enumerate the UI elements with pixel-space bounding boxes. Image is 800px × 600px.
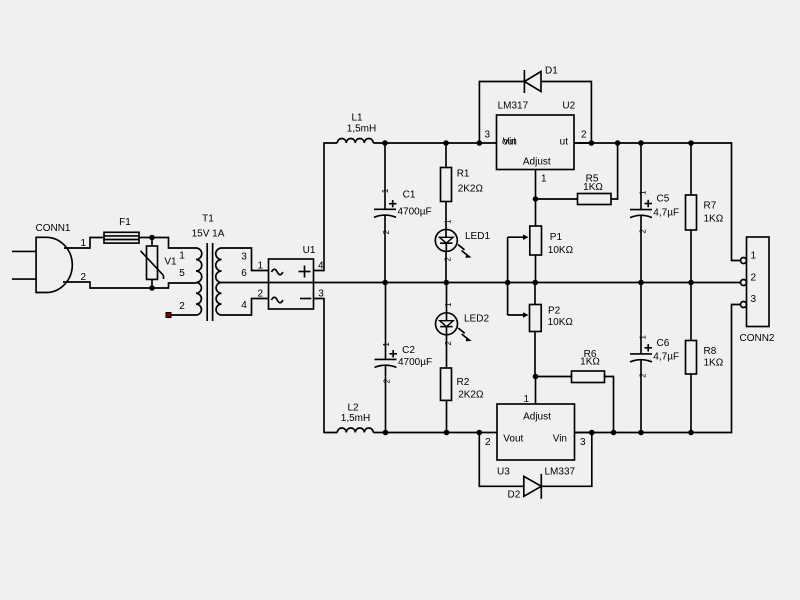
wire mid rail from T1 pin 6 to CONN2 pin 2 xyxy=(222,282,741,284)
wire bottom rail right xyxy=(575,305,741,433)
svg-text:2: 2 xyxy=(383,378,392,383)
svg-text:2: 2 xyxy=(638,373,647,378)
svg-text:2: 2 xyxy=(257,289,263,300)
svg-text:R8: R8 xyxy=(704,346,717,357)
resistor R7 xyxy=(686,143,724,283)
svg-text:P1: P1 xyxy=(550,232,563,243)
node top rail junction at R5 xyxy=(615,140,621,146)
svg-text:1: 1 xyxy=(80,238,86,249)
svg-text:3: 3 xyxy=(484,130,490,141)
svg-text:C2: C2 xyxy=(402,345,415,356)
svg-text:3: 3 xyxy=(241,252,247,263)
wire U2 pin 1 adjust xyxy=(536,170,548,200)
wire T1 pin 4 to U1 pin 2 xyxy=(222,289,269,315)
node junction V1 bottom xyxy=(149,285,155,291)
LED LED2 xyxy=(436,283,490,369)
svg-text:2: 2 xyxy=(179,301,185,312)
wire R5 to top rail xyxy=(611,143,618,199)
wire CONN1 pin 1 to F1 xyxy=(64,238,104,250)
svg-text:T1: T1 xyxy=(202,214,214,225)
node bottom rail junction at C2 xyxy=(383,430,389,436)
svg-text:CONN2: CONN2 xyxy=(739,333,774,344)
wire T1 pin 2 stub xyxy=(171,314,196,316)
svg-text:V1: V1 xyxy=(164,257,177,268)
svg-text:1: 1 xyxy=(523,394,529,405)
svg-text:2K2Ω: 2K2Ω xyxy=(458,184,484,195)
node mid rail junction at P1 xyxy=(532,280,538,286)
svg-text:2K2Ω: 2K2Ω xyxy=(458,390,484,401)
svg-text:2: 2 xyxy=(485,437,491,448)
wire top rail right xyxy=(574,143,741,261)
svg-text:10KΩ: 10KΩ xyxy=(548,317,574,328)
svg-text:R2: R2 xyxy=(457,377,470,388)
wire U3 pin 3 to bottom rail xyxy=(575,432,592,434)
svg-text:out: out xyxy=(502,137,516,148)
svg-text:LM317: LM317 xyxy=(498,101,529,112)
svg-text:6: 6 xyxy=(241,268,247,279)
svg-text:4: 4 xyxy=(318,260,324,271)
svg-text:R7: R7 xyxy=(704,201,717,212)
node top rail junction at D1 right xyxy=(589,140,595,146)
svg-text:10KΩ: 10KΩ xyxy=(548,245,574,256)
wire top rail left xyxy=(373,142,496,144)
potentiometer P2 xyxy=(508,283,574,377)
regulator U2 LM317 xyxy=(484,101,587,170)
svg-text:15V 1A: 15V 1A xyxy=(192,229,225,240)
svg-text:1KΩ: 1KΩ xyxy=(704,214,724,225)
wire T1 pin 3 to U1 pin 1 xyxy=(222,248,269,271)
node bottom rail junction at R2 xyxy=(444,430,450,436)
svg-text:F1: F1 xyxy=(119,217,131,228)
svg-text:Vout: Vout xyxy=(503,434,523,445)
node top rail junction at C5 xyxy=(638,140,644,146)
svg-text:1KΩ: 1KΩ xyxy=(580,357,600,368)
svg-text:2: 2 xyxy=(444,341,453,346)
svg-text:3: 3 xyxy=(580,437,586,448)
svg-text:C6: C6 xyxy=(657,338,670,349)
svg-text:1KΩ: 1KΩ xyxy=(583,182,603,193)
resistor R6 xyxy=(536,349,605,383)
svg-text:LED2: LED2 xyxy=(464,313,489,324)
connector CONN1 xyxy=(35,223,72,293)
diode D1 xyxy=(524,66,558,94)
svg-text:R1: R1 xyxy=(457,168,470,179)
node adjust U3 junction xyxy=(533,374,539,380)
capacitor C6 xyxy=(630,283,679,433)
inductor L2 xyxy=(337,402,373,432)
svg-text:3: 3 xyxy=(751,294,757,305)
resistor R2 xyxy=(441,368,484,433)
svg-text:Adjust: Adjust xyxy=(523,157,551,168)
capacitor C1 xyxy=(374,143,432,283)
no-connect marker T1 pin 2 xyxy=(166,313,171,318)
svg-text:2: 2 xyxy=(638,229,647,234)
wire D2 anode loop xyxy=(479,433,524,487)
svg-text:P2: P2 xyxy=(548,306,561,317)
svg-text:1: 1 xyxy=(444,219,453,224)
svg-text:C5: C5 xyxy=(657,194,670,205)
svg-text:4700µF: 4700µF xyxy=(398,207,432,218)
wire U3 pin 1 adjust xyxy=(523,377,535,406)
node top rail junction at R1 xyxy=(443,140,449,146)
wire R6 to bottom rail xyxy=(605,377,614,433)
svg-text:LED1: LED1 xyxy=(465,231,490,242)
capacitor C5 xyxy=(630,143,679,283)
svg-text:U1: U1 xyxy=(303,245,316,256)
svg-text:4700µF: 4700µF xyxy=(398,357,432,368)
node top rail junction at R7 xyxy=(688,140,694,146)
varistor V1 xyxy=(141,238,178,289)
node mid rail junction at LED1 xyxy=(444,280,450,286)
svg-text:2: 2 xyxy=(382,230,391,235)
node mid rail junction at C5 xyxy=(638,280,644,286)
wire bottom rail left xyxy=(373,432,497,434)
svg-text:U3: U3 xyxy=(497,467,510,478)
LED LED1 xyxy=(435,202,490,283)
wire D2 cathode loop xyxy=(541,433,592,487)
wire D1 cathode to U2 pin 3 node xyxy=(479,82,524,144)
svg-text:1,5mH: 1,5mH xyxy=(341,413,370,424)
node adjust U2 junction xyxy=(533,196,539,202)
wire U1 pin 4 to L1 xyxy=(314,143,338,271)
bridge rectifier U1 xyxy=(269,245,316,309)
svg-text:L2: L2 xyxy=(347,402,359,413)
fuse F1 xyxy=(104,217,139,243)
potentiometer P1 xyxy=(508,199,574,283)
node junction V1 top xyxy=(149,235,155,241)
svg-text:D2: D2 xyxy=(508,489,521,500)
svg-text:C1: C1 xyxy=(403,190,416,201)
svg-text:L1: L1 xyxy=(351,113,363,124)
svg-text:2: 2 xyxy=(80,272,86,283)
node mid rail junction at C1 xyxy=(382,280,388,286)
resistor R8 xyxy=(686,283,724,433)
svg-text:ut: ut xyxy=(560,137,569,148)
svg-text:2: 2 xyxy=(751,272,757,283)
svg-text:4,7µF: 4,7µF xyxy=(653,207,679,218)
svg-text:1: 1 xyxy=(541,174,547,185)
svg-text:Adjust: Adjust xyxy=(523,412,551,423)
svg-text:1: 1 xyxy=(382,342,391,347)
transformer T1 xyxy=(179,214,247,322)
resistor R1 xyxy=(441,143,484,202)
svg-text:1KΩ: 1KΩ xyxy=(704,357,724,368)
svg-text:CONN1: CONN1 xyxy=(35,223,70,234)
resistor R5 xyxy=(536,174,612,205)
wire F1 to junction and T1 pin 1 xyxy=(139,238,196,249)
svg-text:1: 1 xyxy=(638,190,647,195)
svg-text:LM337: LM337 xyxy=(545,467,576,478)
svg-text:4: 4 xyxy=(241,300,247,311)
node top rail junction at D1 left xyxy=(477,140,483,146)
svg-text:Vin: Vin xyxy=(553,434,567,445)
diode D2 xyxy=(508,474,542,501)
wire U1 pin 3 to L2 xyxy=(314,289,338,433)
node bottom rail junction at C6 xyxy=(638,430,644,436)
svg-text:1,5mH: 1,5mH xyxy=(347,124,376,135)
svg-text:2: 2 xyxy=(581,130,587,141)
svg-text:D1: D1 xyxy=(545,66,558,77)
svg-text:1: 1 xyxy=(381,188,390,193)
node bottom rail junction at D2 left xyxy=(477,430,483,436)
wire U2 pin 2 to top rail xyxy=(574,142,591,144)
regulator U3 LM337 xyxy=(485,404,586,478)
node mid rail junction at wipers xyxy=(505,280,511,286)
node mid rail junction at R7 xyxy=(688,280,694,286)
capacitor C2 xyxy=(375,283,433,433)
svg-text:1: 1 xyxy=(257,260,263,271)
svg-text:1: 1 xyxy=(751,251,757,262)
inductor L1 xyxy=(337,113,376,144)
svg-text:1: 1 xyxy=(179,251,185,262)
node bottom rail junction at D2 right xyxy=(589,430,595,436)
svg-text:4,7µF: 4,7µF xyxy=(653,352,679,363)
svg-text:U2: U2 xyxy=(562,101,575,112)
svg-text:2: 2 xyxy=(444,257,453,262)
svg-text:3: 3 xyxy=(318,289,324,300)
svg-text:1: 1 xyxy=(444,302,453,307)
node bottom rail junction at R6 xyxy=(611,430,617,436)
node top rail junction at C1 xyxy=(382,140,388,146)
wire D1 anode to U2 pin 2 node xyxy=(541,82,591,144)
svg-text:5: 5 xyxy=(179,268,185,279)
svg-text:1: 1 xyxy=(638,335,647,340)
wire CONN1 prong 2 xyxy=(12,278,36,280)
wire CONN1 prong 1 xyxy=(12,250,36,252)
connector CONN2 xyxy=(739,237,774,344)
node bottom rail junction at R8 xyxy=(688,430,694,436)
wire CONN1 pin 2 to T1 pin 5 xyxy=(63,272,196,288)
